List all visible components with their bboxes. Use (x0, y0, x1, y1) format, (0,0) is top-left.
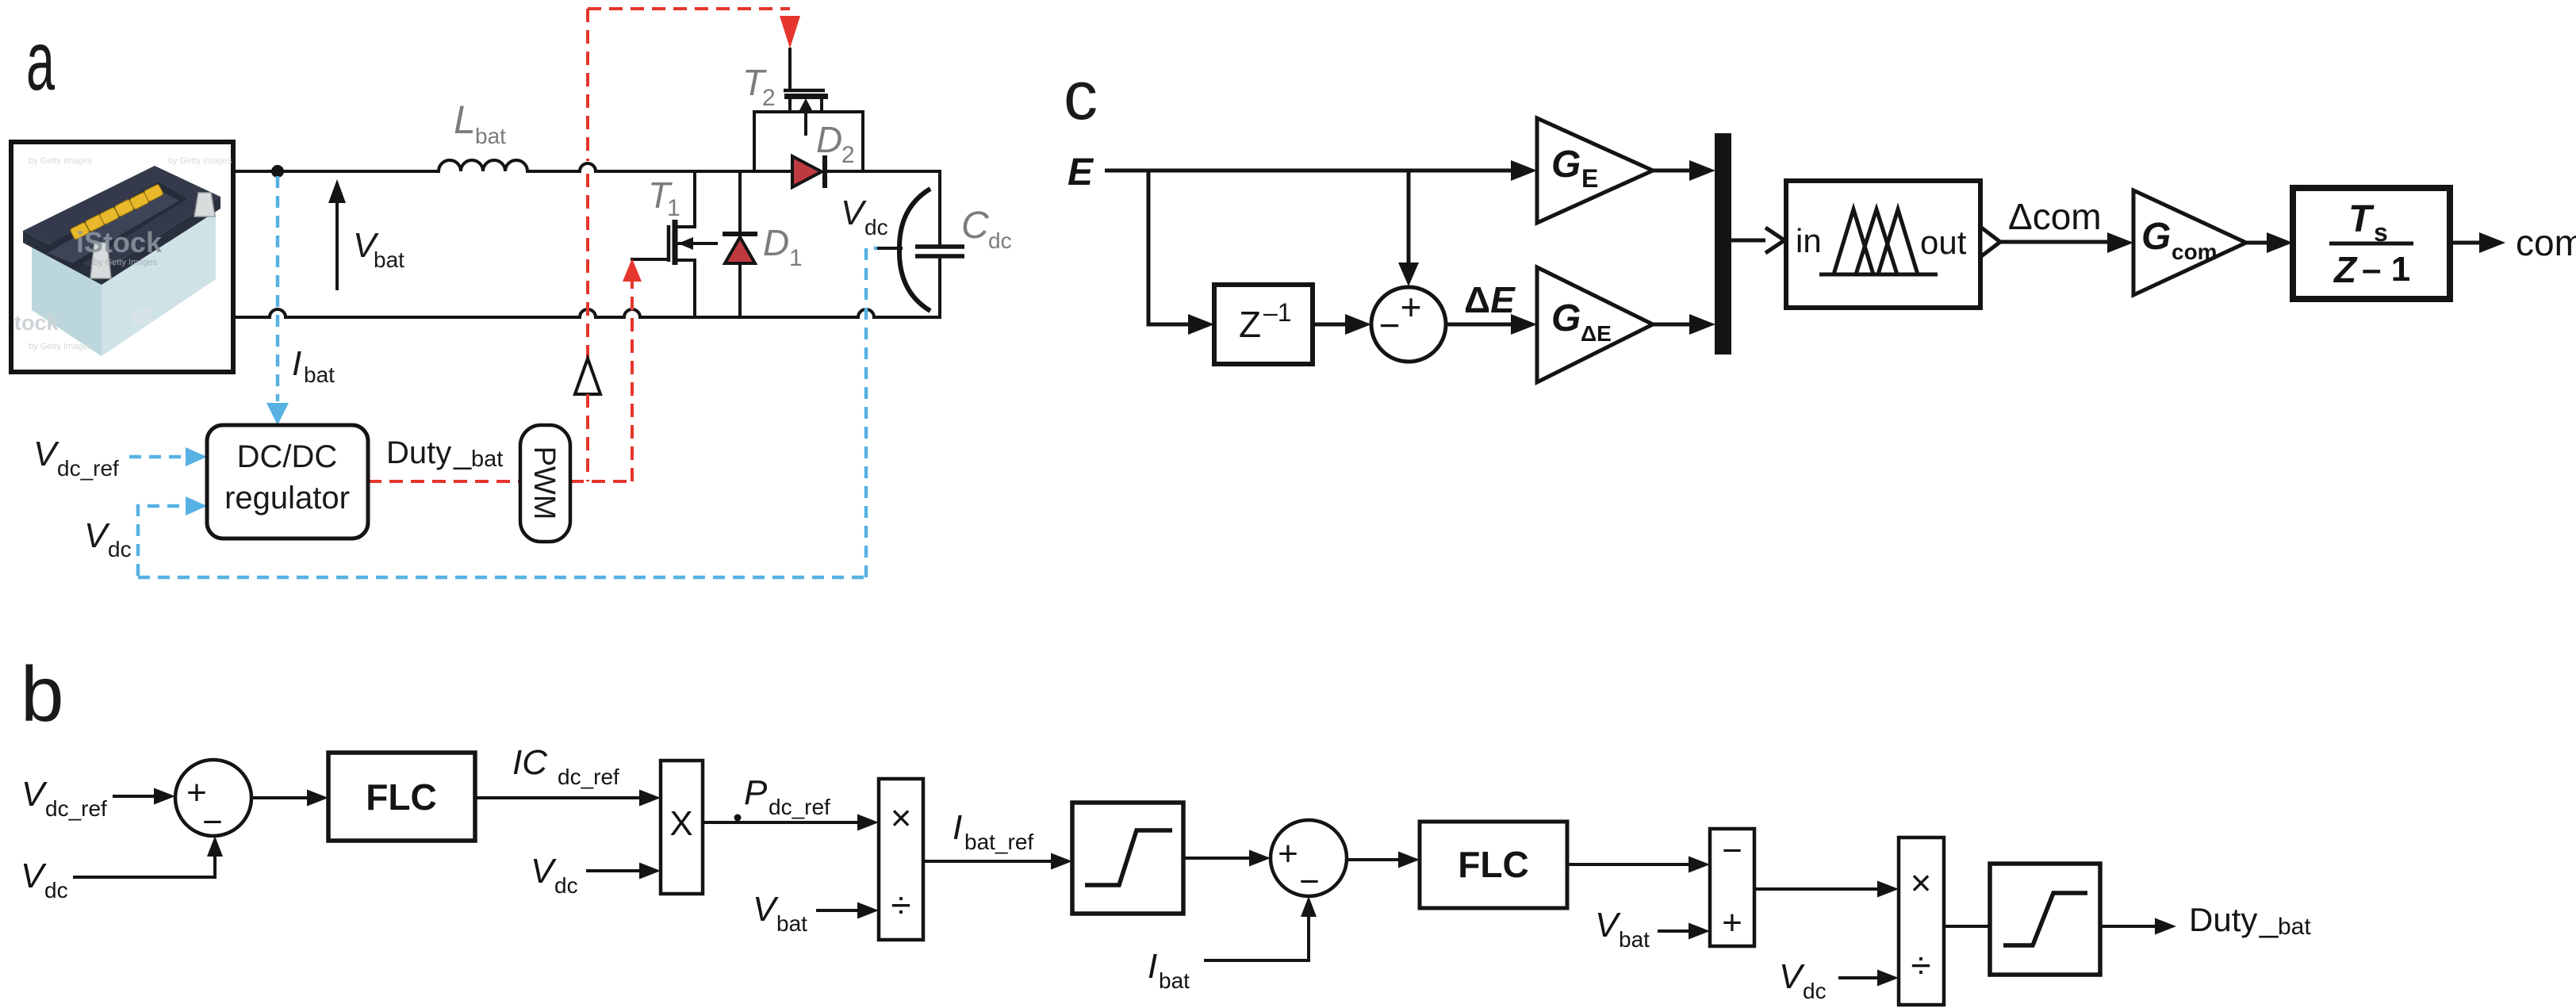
transistor T2 (754, 49, 863, 171)
wire sum2 to FLC2 (1347, 852, 1420, 868)
wire GE to mux (1653, 160, 1715, 181)
svg-text:+: + (1278, 834, 1298, 873)
svg-text:V: V (84, 516, 110, 555)
wire muldiv1 to sat1 (923, 853, 1072, 870)
svg-text:V: V (1595, 906, 1621, 945)
capacitor Cdc (915, 247, 964, 256)
label T2 (742, 62, 776, 111)
svg-text:_: _ (453, 435, 472, 470)
svg-text:iS: iS (132, 305, 152, 328)
label Ibat_ref (953, 808, 1033, 854)
label D1 (763, 222, 803, 271)
buffer triangle (575, 358, 600, 394)
wire muldiv2 to sat2 (1944, 925, 1990, 928)
wire bottom rail (233, 309, 940, 317)
wire Vbat to pm block (1658, 923, 1710, 940)
svg-text:Duty: Duty (2189, 901, 2257, 938)
label Vdc b2 (531, 852, 578, 898)
svg-text:D: D (763, 222, 789, 263)
svg-text:dc: dc (988, 228, 1012, 253)
svg-text:V: V (753, 890, 779, 929)
label Vdc_ref (33, 435, 119, 481)
svg-text:dc: dc (108, 537, 132, 561)
label Vbat (353, 226, 404, 272)
wire FLC2 to pm block (1567, 857, 1710, 873)
svg-text:G: G (2141, 216, 2171, 258)
svg-text:2: 2 (841, 142, 855, 168)
label Vdc (capacitor) (841, 194, 888, 240)
wire sum to GdE (1446, 314, 1537, 335)
diode D1 (723, 171, 757, 317)
brace for Vdc (879, 189, 930, 311)
svg-text:out: out (1920, 224, 1967, 261)
svg-text:dc: dc (554, 873, 578, 898)
svg-text:dc: dc (44, 878, 68, 903)
wire Gcom to Ts block (2246, 232, 2293, 253)
blue dashed Ibat sense (266, 176, 289, 425)
label Vdc (regulator input) (84, 516, 132, 561)
svg-text:dc_ref: dc_ref (558, 765, 619, 789)
battery box frame (11, 142, 233, 372)
wire com output (2450, 232, 2505, 253)
wire GdE to mux (1653, 314, 1715, 335)
wire top rail (233, 163, 940, 171)
svg-text:V: V (21, 775, 48, 814)
svg-text:2: 2 (762, 85, 776, 111)
label T1 (648, 174, 680, 221)
wire FLC1 to X (475, 790, 661, 807)
arrow Vbat (328, 179, 346, 289)
block Ts/(Z-1) (2293, 188, 2450, 299)
svg-text:tock: tock (14, 311, 59, 335)
label Duty_bat (386, 435, 503, 472)
svg-text:−: − (1379, 305, 1401, 346)
label Pdc_ref (744, 773, 830, 819)
svg-text:bat: bat (2278, 914, 2311, 940)
fuzzy output chevron (1980, 227, 2000, 257)
block X multiplier (661, 761, 703, 894)
wire E branch to Z (1148, 171, 1214, 335)
svg-text:ΔE: ΔE (1581, 321, 1612, 346)
wire Ibat to sum2 (1204, 896, 1317, 960)
block FLC1 (328, 753, 475, 841)
svg-text:P: P (744, 773, 768, 812)
svg-text:by Getty Images: by Getty Images (168, 156, 232, 166)
svg-text:bat: bat (374, 247, 404, 272)
wire Vbat to muldiv1 (816, 903, 879, 919)
block muldiv2 (1899, 837, 1944, 1005)
red arrow into T2 gate (780, 16, 800, 48)
transistor T1 (632, 171, 716, 317)
block minusplus (1710, 829, 1754, 946)
svg-text:I: I (292, 344, 301, 383)
svg-text:C: C (961, 205, 989, 247)
svg-text:– 1: – 1 (2362, 250, 2410, 289)
svg-text:by Getty Images: by Getty Images (94, 258, 158, 267)
svg-text:V: V (33, 435, 59, 473)
svg-text:a: a (26, 14, 55, 108)
svg-text:DC/DC: DC/DC (237, 439, 338, 474)
mux bar (1715, 133, 1731, 355)
svg-text:dc_ref: dc_ref (769, 795, 830, 819)
svg-text:in: in (1796, 222, 1822, 259)
svg-text:com: com (2172, 240, 2218, 264)
blue dashed Vdc input arrow (138, 496, 207, 576)
wire Z to sum (1313, 314, 1371, 335)
wire fuzzy to Gcom (2000, 232, 2133, 253)
wire X to muldiv1 (703, 814, 879, 831)
svg-text:1: 1 (667, 195, 680, 221)
wire Vdc to X (586, 863, 661, 880)
svg-text:D: D (816, 119, 842, 160)
svg-text:iStock: iStock (76, 226, 163, 259)
svg-text:V: V (1779, 957, 1805, 996)
label Vbat b1 (753, 890, 807, 936)
wire Vdc to sum1 (73, 836, 223, 877)
fuzzy logic block (1786, 181, 1980, 308)
svg-text:I: I (953, 808, 962, 847)
summing junction b2 (1271, 820, 1347, 901)
wire Vdc to muldiv2 (1838, 970, 1899, 987)
summing junction c (1371, 286, 1446, 362)
dot multiply (734, 814, 742, 822)
svg-text:E: E (1581, 164, 1598, 193)
wire right branch (Cdc leg) (938, 171, 941, 317)
label ICdc_ref (512, 743, 619, 789)
wire pm to muldiv2 (1754, 881, 1899, 898)
label Vdc b1 (21, 857, 68, 903)
label Ibat b (1148, 947, 1190, 993)
svg-text:L: L (454, 98, 476, 142)
svg-text:bat: bat (304, 362, 335, 387)
wire mux to fuzzy (1731, 228, 1784, 253)
label Duty_bat out (2189, 901, 2311, 940)
block FLC2 (1420, 822, 1567, 908)
svg-text:bat: bat (1159, 968, 1190, 993)
wire sat1 to sum2 (1183, 850, 1271, 867)
DC/DC regulator block (207, 425, 368, 538)
label Lbat (454, 98, 506, 148)
inductor Lbat (439, 160, 527, 171)
wire Vdcref to sum1 (113, 788, 175, 805)
svg-text:−: − (1722, 831, 1742, 870)
svg-text:PWM: PWM (527, 447, 561, 520)
svg-text:V: V (21, 857, 47, 895)
svg-text:I: I (1148, 947, 1157, 986)
svg-text:regulator: regulator (224, 481, 350, 515)
svg-text:com: com (2516, 222, 2576, 263)
svg-text:c: c (1064, 58, 1098, 134)
svg-text:–1: –1 (1263, 298, 1292, 327)
svg-text:dc: dc (1803, 979, 1827, 1003)
svg-text:bat: bat (471, 447, 503, 472)
svg-text:G: G (1551, 144, 1581, 186)
label Vdc_ref b (21, 775, 107, 821)
svg-text:dc_ref: dc_ref (57, 456, 119, 481)
wire sum1 to FLC1 (251, 790, 328, 807)
block saturation 1 (1072, 803, 1183, 914)
svg-text:bat: bat (1619, 927, 1650, 952)
svg-text:FLC: FLC (1458, 844, 1528, 885)
svg-text:b: b (21, 650, 64, 738)
svg-text:bat: bat (776, 911, 807, 936)
svg-text:Z: Z (1239, 304, 1261, 345)
svg-text:÷: ÷ (891, 884, 910, 926)
svg-text:Z: Z (2333, 249, 2358, 290)
block saturation 2 (1990, 864, 2100, 975)
svg-text:G: G (1551, 297, 1581, 339)
svg-text:E: E (1068, 151, 1094, 194)
summing junction b1 (175, 760, 251, 841)
label D2 (816, 119, 855, 168)
svg-text:IC: IC (512, 743, 548, 782)
gain GdE (1537, 267, 1653, 382)
svg-text:1: 1 (789, 245, 803, 271)
svg-text:_: _ (2259, 901, 2279, 938)
svg-text:by Getty Images: by Getty Images (29, 342, 93, 351)
svg-text:FLC: FLC (366, 776, 436, 818)
gain Gcom (2133, 190, 2246, 295)
svg-text:×: × (1911, 862, 1932, 903)
wire E main (1105, 160, 1537, 181)
label Ibat (292, 344, 335, 387)
svg-text:+: + (1722, 903, 1742, 942)
svg-text:ΔE: ΔE (1464, 279, 1516, 320)
svg-text:V: V (531, 852, 557, 891)
svg-text:×: × (891, 797, 912, 838)
red dashed wire to T1 gate (623, 259, 642, 481)
svg-text:Δcom: Δcom (2008, 196, 2102, 237)
svg-text:−: − (1299, 862, 1320, 901)
gain GE (1537, 118, 1653, 223)
svg-text:Duty: Duty (386, 435, 451, 470)
svg-text:V: V (841, 194, 867, 232)
junction node on top rail (271, 165, 284, 178)
svg-text:dc: dc (864, 215, 888, 240)
block muldiv1 (879, 779, 923, 940)
red dashed gate wire top (588, 9, 790, 358)
svg-text:+: + (1401, 286, 1422, 328)
diode D2 (792, 155, 825, 188)
label Vdc b3 (1779, 957, 1827, 1003)
svg-text:T: T (2348, 198, 2375, 240)
svg-text:−: − (202, 803, 223, 841)
battery image (14, 156, 232, 356)
svg-text:÷: ÷ (1911, 945, 1930, 986)
svg-text:bat_ref: bat_ref (964, 830, 1033, 854)
svg-text:X: X (669, 804, 692, 843)
red dashed below buffer (586, 394, 589, 481)
svg-text:dc_ref: dc_ref (45, 796, 107, 821)
blue dashed Vdc_ref input arrow (129, 447, 207, 466)
label Vbat b2 (1595, 906, 1650, 952)
wire Duty_bat output (2100, 918, 2176, 935)
wire E branch down to sum (1398, 171, 1419, 286)
blue dashed Vdc sense wire (138, 248, 877, 577)
red dashed Duty_bat wire (368, 480, 632, 483)
PWM block (520, 425, 570, 542)
label Cdc (961, 205, 1012, 253)
block Z-1 (1214, 285, 1313, 364)
svg-text:by Getty Images: by Getty Images (29, 156, 93, 166)
svg-text:bat: bat (475, 124, 506, 148)
